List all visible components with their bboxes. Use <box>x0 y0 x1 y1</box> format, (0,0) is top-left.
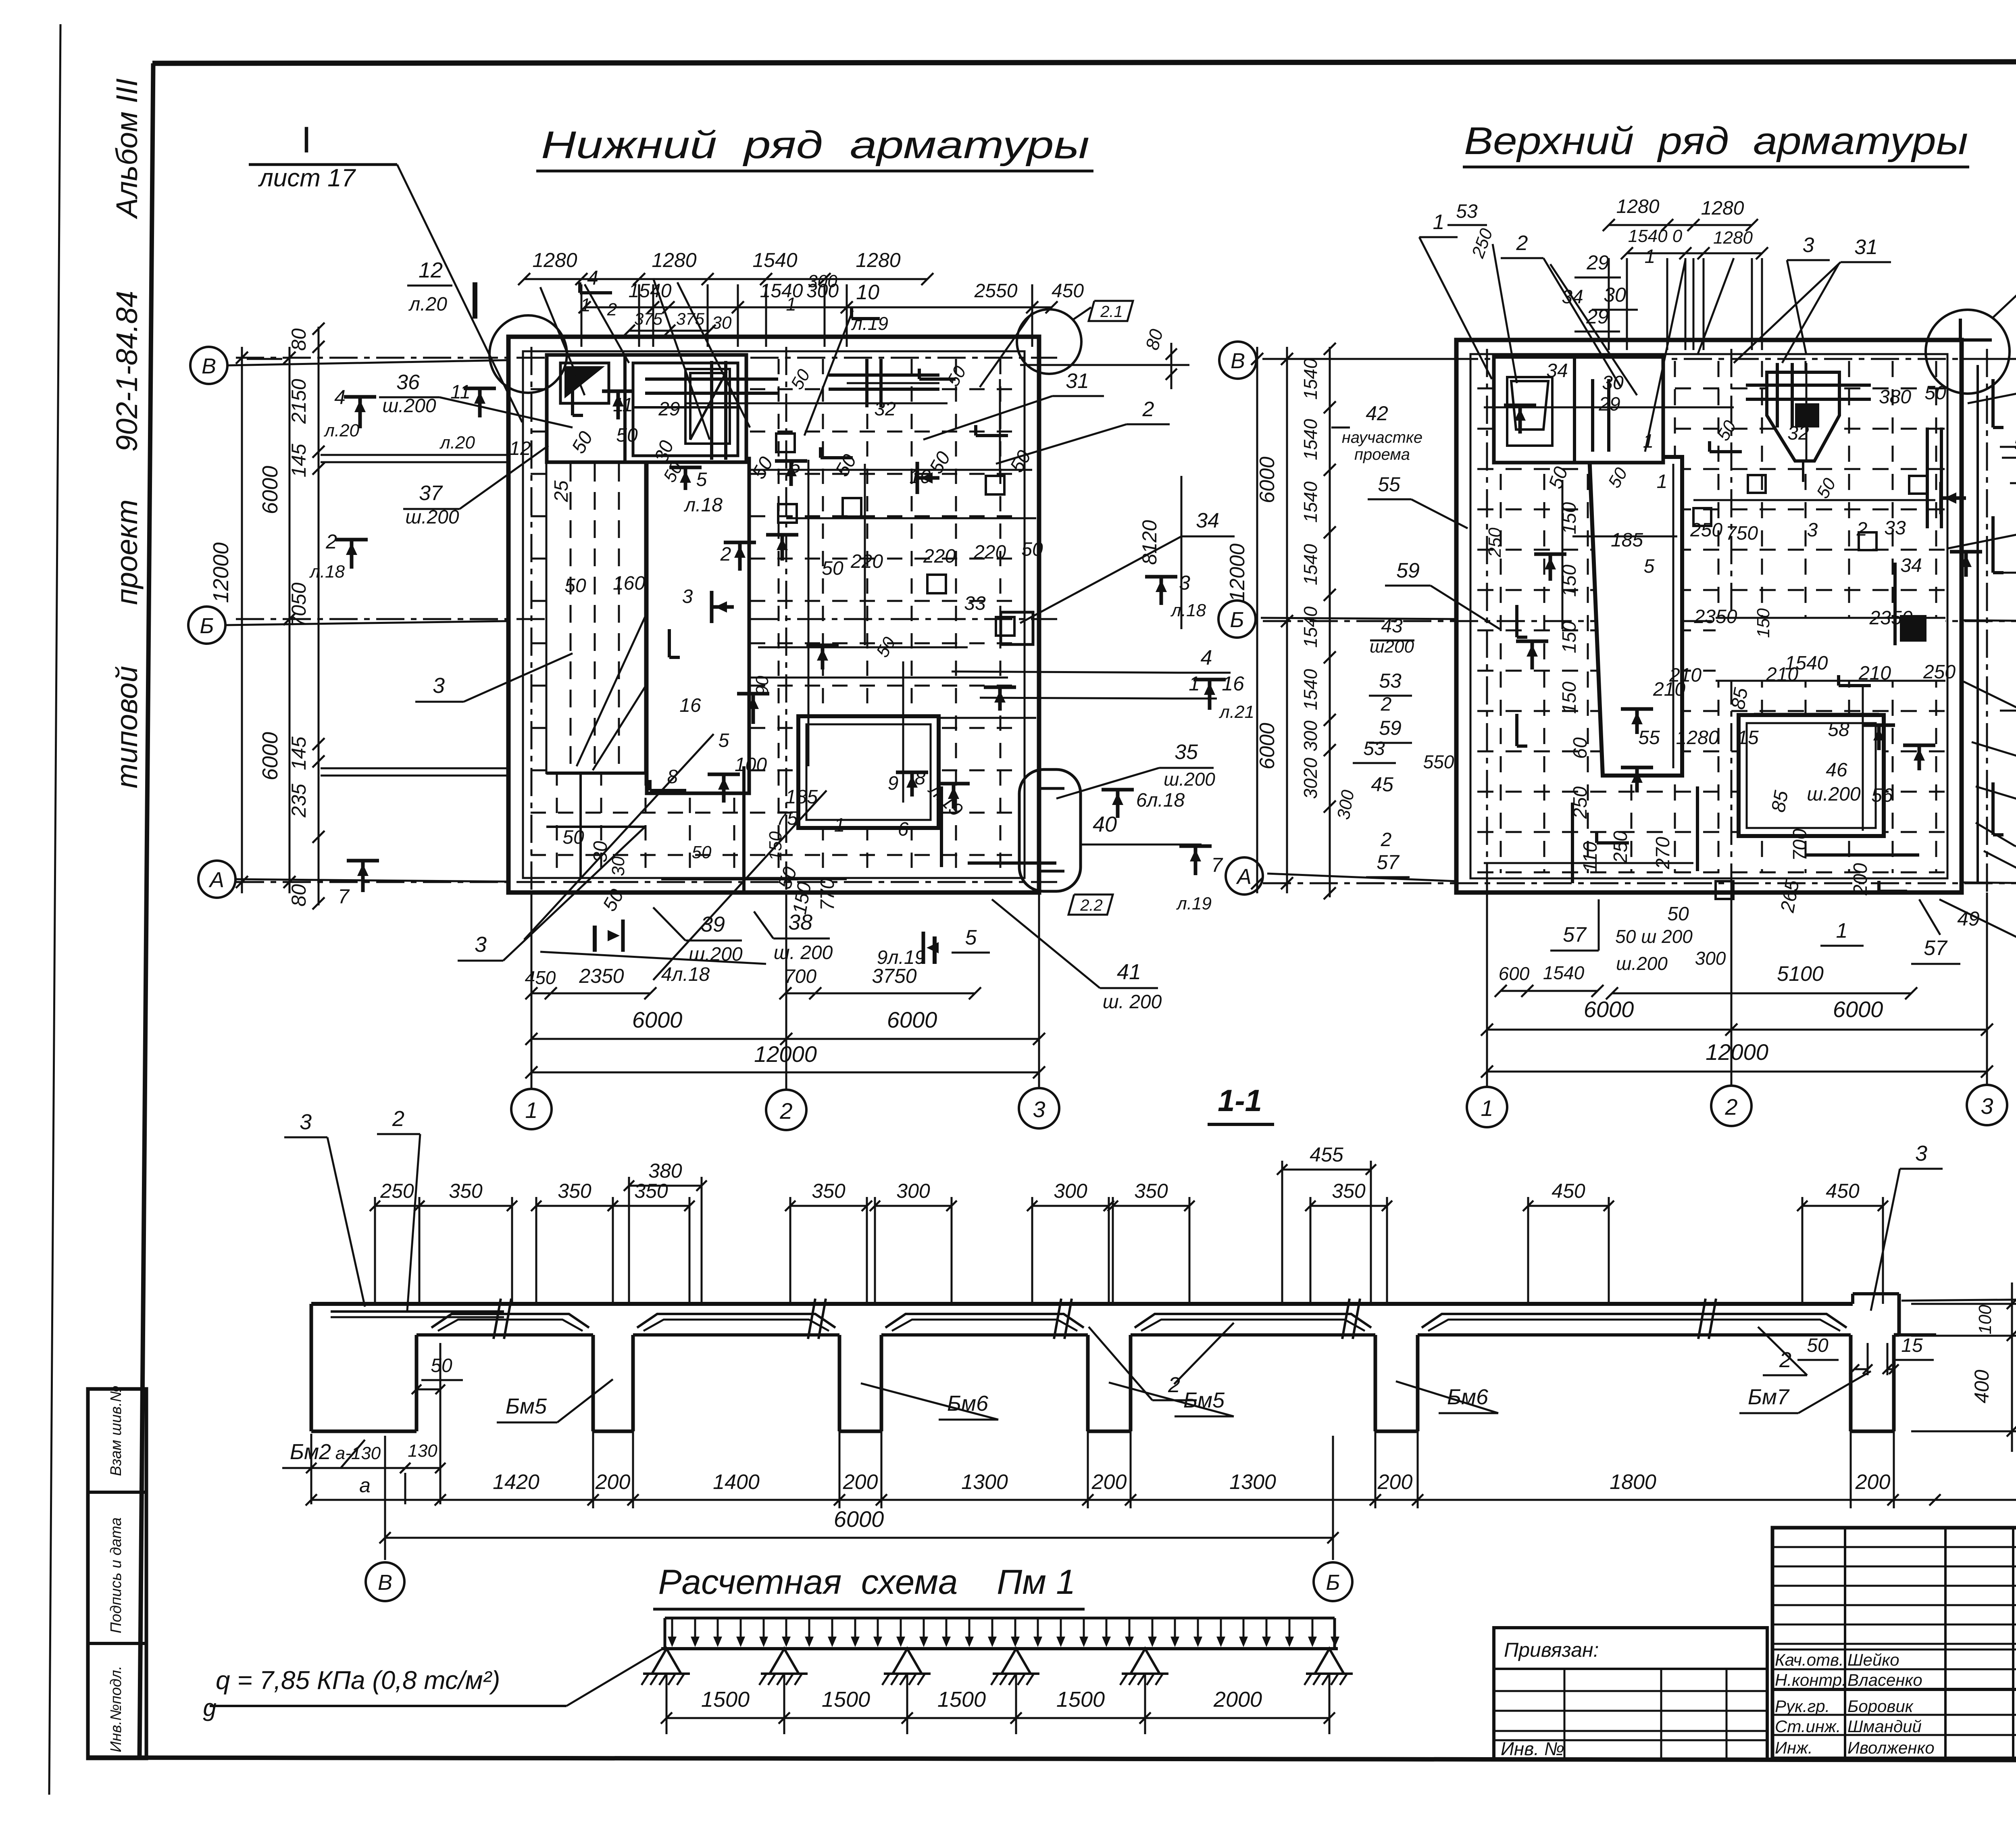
svg-text:25: 25 <box>551 480 572 503</box>
svg-text:145: 145 <box>287 736 310 770</box>
svg-text:12: 12 <box>509 438 531 459</box>
left plan top-left corner detail circle <box>489 315 567 393</box>
svg-text:4: 4 <box>334 386 346 409</box>
svg-text:16: 16 <box>1222 672 1244 695</box>
svg-text:50: 50 <box>1713 417 1740 444</box>
svg-text:ш.200: ш.200 <box>1807 784 1861 805</box>
svg-text:350: 350 <box>812 1180 846 1202</box>
svg-text:1: 1 <box>1189 672 1200 695</box>
svg-text:40: 40 <box>1093 812 1117 836</box>
personnel table name rows <box>1772 1649 2016 1735</box>
svg-text:450: 450 <box>525 967 556 988</box>
svg-text:проект: проект <box>110 499 144 605</box>
svg-text:Расчетная схема Пм 1: Расчетная схема Пм 1 <box>658 1563 1076 1601</box>
svg-text:1300: 1300 <box>1229 1470 1276 1494</box>
svg-text:200: 200 <box>595 1470 631 1494</box>
svg-text:50: 50 <box>822 558 843 579</box>
leader from callout II to plan corner <box>1992 217 2016 319</box>
svg-text:1800: 1800 <box>1610 1470 1656 1494</box>
svg-text:проема: проема <box>1354 446 1410 463</box>
svg-text:1420: 1420 <box>493 1470 539 1494</box>
svg-text:16: 16 <box>679 695 701 716</box>
right plan long rebar run lines <box>1484 407 1734 409</box>
svg-text:250: 250 <box>1610 831 1631 863</box>
left plan leader diagonals from top dims <box>653 278 710 440</box>
left stamp column boxes <box>88 1389 146 1758</box>
svg-text:1300: 1300 <box>961 1470 1008 1494</box>
svg-text:10: 10 <box>856 281 879 304</box>
svg-text:1280: 1280 <box>1701 198 1744 219</box>
svg-text:56: 56 <box>1871 785 1893 806</box>
svg-text:50: 50 <box>831 451 861 480</box>
svg-text:300: 300 <box>1695 948 1726 969</box>
callout flag 2.1 <box>1089 301 1133 321</box>
right plan outer vertical rebar run <box>1976 365 1979 883</box>
right plan axis dash-dot lines <box>1263 349 2016 1085</box>
svg-text:85: 85 <box>1727 686 1752 711</box>
svg-text:2000: 2000 <box>1213 1687 1262 1712</box>
svg-text:3: 3 <box>1033 1097 1045 1122</box>
svg-text:2350: 2350 <box>1694 606 1737 628</box>
left label 2 l.18 inner <box>781 535 784 561</box>
svg-text:1540: 1540 <box>1300 419 1321 460</box>
svg-text:235: 235 <box>287 784 310 818</box>
right plan top dims <box>1609 224 1752 226</box>
svg-text:ш.200: ш.200 <box>689 944 743 965</box>
svg-text:55: 55 <box>1378 473 1400 496</box>
right plan left dim chain 12000 <box>1256 347 1258 893</box>
svg-text:210: 210 <box>1653 679 1685 700</box>
witness lines to column bubbles <box>531 892 1039 1090</box>
svg-text:31: 31 <box>1854 236 1878 259</box>
svg-text:750: 750 <box>1726 523 1758 544</box>
privyazan aux table <box>1494 1628 1767 1759</box>
svg-text:6000: 6000 <box>632 1007 683 1032</box>
left plan axis dash-dot lines <box>236 347 1057 1089</box>
svg-text:ш.200: ш.200 <box>1164 769 1215 790</box>
svg-text:1: 1 <box>525 1097 537 1123</box>
svg-text:2350: 2350 <box>579 965 624 987</box>
svg-text:2: 2 <box>1168 1373 1180 1397</box>
svg-text:Бм6: Бм6 <box>1447 1385 1489 1409</box>
svg-text:400: 400 <box>1970 1370 1993 1403</box>
svg-text:6000: 6000 <box>1256 723 1279 769</box>
svg-text:350: 350 <box>449 1180 483 1202</box>
left rebar section mark 7 <box>361 861 365 892</box>
left plan extra rebar marks <box>821 645 825 669</box>
svg-text:ш.200: ш.200 <box>1616 953 1668 974</box>
svg-text:50: 50 <box>1667 903 1689 925</box>
svg-text:g: g <box>203 1694 216 1721</box>
svg-text:А: А <box>208 868 224 892</box>
leader lines from 39/38 into plan <box>653 907 685 940</box>
svg-text:29: 29 <box>658 398 680 420</box>
svg-text:л.20: л.20 <box>408 294 447 315</box>
svg-text:Инв. №: Инв. № <box>1501 1738 1564 1759</box>
svg-text:300: 300 <box>1300 720 1321 751</box>
section 6000 dim <box>385 1537 1333 1539</box>
svg-text:5: 5 <box>1644 556 1655 577</box>
svg-text:2: 2 <box>607 300 617 319</box>
svg-text:1280: 1280 <box>1616 196 1660 217</box>
svg-text:6л.18: 6л.18 <box>1136 790 1185 811</box>
svg-text:220: 220 <box>850 551 883 572</box>
svg-text:380: 380 <box>1879 386 1911 408</box>
svg-text:50: 50 <box>748 453 777 483</box>
svg-text:50: 50 <box>873 634 900 661</box>
svg-text:50: 50 <box>1807 1335 1829 1356</box>
svg-text:л.18: л.18 <box>1170 601 1206 620</box>
svg-text:59: 59 <box>1396 559 1420 582</box>
svg-text:6000: 6000 <box>887 1007 937 1032</box>
svg-text:50: 50 <box>1813 475 1840 502</box>
svg-text:6000: 6000 <box>834 1506 884 1532</box>
svg-text:2.1: 2.1 <box>1100 303 1123 321</box>
svg-text:80: 80 <box>287 328 310 351</box>
right plan corner step detail <box>1960 319 1992 340</box>
right plan long vertical bars <box>1806 363 1808 460</box>
section axis bubbles V and B <box>366 1562 404 1601</box>
svg-text:2: 2 <box>1724 1094 1737 1120</box>
calc scheme dim line 1500x4 2000 <box>666 1717 1329 1719</box>
svg-text:л.20: л.20 <box>323 421 360 440</box>
svg-text:Боровик: Боровик <box>1847 1697 1914 1716</box>
svg-text:типовой: типовой <box>110 666 144 788</box>
left plan top dim row 1280 1280 1540 1280 <box>524 278 927 280</box>
svg-text:л.18: л.18 <box>309 562 345 582</box>
left plan central slab band (solid outline) <box>647 459 749 793</box>
svg-text:5: 5 <box>696 469 707 490</box>
svg-text:700: 700 <box>784 966 816 987</box>
svg-text:350: 350 <box>1332 1180 1366 1202</box>
svg-text:ш.200: ш.200 <box>382 395 436 417</box>
svg-text:130: 130 <box>408 1441 437 1461</box>
svg-text:а-130: а-130 <box>335 1443 381 1463</box>
right plan tall opening (solid outline) <box>1589 457 1682 776</box>
section slab underside and ribs <box>417 1333 593 1337</box>
drawing frame left border <box>140 63 153 1758</box>
svg-text:1: 1 <box>1433 211 1445 234</box>
right plan inner wall line <box>1470 354 1947 878</box>
svg-text:Бм7: Бм7 <box>1748 1385 1790 1409</box>
svg-text:Подпись и дата: Подпись и дата <box>108 1518 125 1633</box>
left plan rebar T marks <box>616 391 620 419</box>
svg-text:Б: Б <box>1230 608 1244 632</box>
svg-text:2.2: 2.2 <box>1080 897 1103 914</box>
right plan funnel opening 32 <box>1767 372 1839 461</box>
right plan rebar mesh dashed lines <box>1477 361 1945 873</box>
svg-text:3: 3 <box>1807 519 1818 541</box>
svg-text:1500: 1500 <box>1056 1687 1105 1712</box>
drawing frame bottom border <box>88 1758 2016 1761</box>
right plan heavy bars bottom <box>1696 786 1699 871</box>
svg-text:Иволженко: Иволженко <box>1847 1738 1935 1757</box>
svg-text:34: 34 <box>1546 360 1568 382</box>
svg-text:38: 38 <box>788 910 812 934</box>
svg-text:Инв.№подл.: Инв.№подл. <box>108 1666 125 1752</box>
callout flag 2.2 <box>1068 895 1113 915</box>
right plan heavy bars top <box>1746 384 1871 387</box>
right plan top-left room block <box>1494 357 1663 463</box>
svg-text:Б: Б <box>200 614 214 638</box>
svg-text:7: 7 <box>338 885 350 908</box>
svg-text:210: 210 <box>1858 663 1891 684</box>
svg-text:3: 3 <box>475 932 487 957</box>
svg-text:I: I <box>301 119 312 161</box>
section top reinforcement bars (2) zigzag <box>431 1314 589 1328</box>
svg-text:12000: 12000 <box>1226 544 1249 602</box>
svg-text:л.21: л.21 <box>1218 702 1254 722</box>
left plan outer wall boundary <box>508 337 1039 892</box>
svg-text:30: 30 <box>1604 284 1626 306</box>
svg-text:Б: Б <box>1326 1570 1340 1595</box>
right plan left dim chain 1540 x4 etc <box>1329 347 1331 897</box>
leader circle to flag 2.1 <box>1073 307 1091 319</box>
left plan long rebar run lines <box>685 402 948 405</box>
right plan small rebar squares <box>1748 475 1766 493</box>
left dim witness lines <box>242 357 508 358</box>
left plan rebar hooks <box>650 789 686 792</box>
left plan bottom dim row 6000 6000 <box>531 1038 1039 1040</box>
svg-text:160: 160 <box>613 573 645 594</box>
title block outer box <box>1772 1528 2016 1758</box>
svg-text:15: 15 <box>1901 1335 1923 1356</box>
svg-text:1500: 1500 <box>701 1687 750 1712</box>
svg-text:57: 57 <box>1377 851 1400 874</box>
svg-text:36: 36 <box>396 371 420 394</box>
left plan opening diagonal leaders <box>577 476 710 766</box>
svg-text:1280: 1280 <box>652 249 696 271</box>
svg-text:2: 2 <box>1381 694 1392 715</box>
svg-text:1: 1 <box>1481 1095 1493 1121</box>
drawing frame top border <box>152 61 2016 63</box>
svg-text:59: 59 <box>1379 717 1402 739</box>
svg-text:200: 200 <box>843 1470 878 1494</box>
section slab top line <box>311 1302 1853 1306</box>
svg-text:15: 15 <box>1737 727 1759 749</box>
svg-text:1: 1 <box>1836 919 1848 943</box>
svg-text:Верхний ряд арматуры: Верхний ряд арматуры <box>1464 119 1968 163</box>
svg-text:Нижний ряд арматуры: Нижний ряд арматуры <box>541 123 1089 167</box>
svg-text:1-1: 1-1 <box>1218 1084 1262 1118</box>
svg-text:250: 250 <box>380 1180 414 1202</box>
svg-text:л.19: л.19 <box>1176 894 1212 913</box>
svg-text:35: 35 <box>1175 740 1198 764</box>
svg-text:32: 32 <box>874 398 896 420</box>
right plan bottom-right room <box>1739 715 1884 836</box>
svg-text:450: 450 <box>1826 1180 1860 1202</box>
left rebar section mark 4 l.20 <box>358 397 362 428</box>
left plan small rebar squares <box>776 434 795 452</box>
left plan bottom-right rounded detail outline <box>1019 769 1081 891</box>
svg-text:250: 250 <box>1485 528 1505 558</box>
left plan top small dims 375 375 and tags <box>629 330 710 332</box>
svg-text:1500: 1500 <box>822 1687 870 1712</box>
svg-text:1540: 1540 <box>1300 358 1321 400</box>
svg-text:50: 50 <box>692 842 712 862</box>
svg-text:50: 50 <box>564 575 586 596</box>
svg-text:2: 2 <box>1142 398 1154 421</box>
svg-text:5100: 5100 <box>1777 962 1824 986</box>
right plan heavy bars right <box>1926 427 1929 528</box>
svg-text:50 ш 200: 50 ш 200 <box>1615 926 1693 947</box>
svg-text:30: 30 <box>608 856 628 876</box>
svg-text:1: 1 <box>834 815 845 836</box>
left plan bottom dim row 12000 <box>531 1072 1039 1074</box>
svg-text:300: 300 <box>808 271 837 291</box>
svg-text:1280: 1280 <box>532 249 577 271</box>
svg-text:450: 450 <box>1052 280 1084 302</box>
svg-text:350: 350 <box>1134 1180 1168 1202</box>
svg-text:185: 185 <box>785 786 818 808</box>
section right end edge <box>1897 1294 1901 1335</box>
personnel table rows upper empty <box>1772 1547 2016 1644</box>
svg-text:9: 9 <box>888 773 899 794</box>
svg-text:1280: 1280 <box>1676 727 1719 749</box>
svg-text:3750: 3750 <box>872 965 916 987</box>
svg-text:43: 43 <box>1381 615 1403 637</box>
svg-text:770: 770 <box>817 878 838 911</box>
svg-text:3: 3 <box>1803 234 1814 257</box>
right plan leader diagonals <box>1645 260 1685 452</box>
calc scheme supports <box>652 1649 681 1674</box>
svg-text:60: 60 <box>1570 737 1591 759</box>
svg-text:1: 1 <box>1645 246 1656 267</box>
svg-text:Шейко: Шейко <box>1847 1650 1899 1669</box>
svg-text:6000: 6000 <box>1256 457 1279 503</box>
svg-text:110: 110 <box>1580 841 1601 872</box>
svg-text:12: 12 <box>419 258 443 282</box>
right plan bottom dims <box>1501 990 1597 992</box>
svg-text:8: 8 <box>667 766 678 788</box>
left plan column bubbles 1 2 3 <box>511 1089 552 1129</box>
svg-text:11: 11 <box>613 394 633 416</box>
svg-text:53: 53 <box>1363 738 1385 759</box>
svg-text:29: 29 <box>1598 394 1620 415</box>
section left small dims a-130 130 a <box>311 1467 405 1469</box>
svg-text:350: 350 <box>634 1180 668 1202</box>
svg-text:85: 85 <box>1768 789 1793 814</box>
svg-text:Ст.инж.: Ст.инж. <box>1775 1717 1841 1736</box>
svg-text:Привязан:: Привязан: <box>1504 1639 1599 1661</box>
left plan top-left room block walls <box>547 355 746 462</box>
svg-text:300: 300 <box>896 1180 930 1202</box>
svg-text:лист 17: лист 17 <box>258 164 356 192</box>
axis extension lines to circles <box>227 360 508 365</box>
svg-text:200: 200 <box>1091 1470 1127 1494</box>
axis circle A right plan left <box>1226 857 1263 895</box>
svg-text:12000: 12000 <box>1706 1039 1768 1065</box>
svg-text:6000: 6000 <box>1584 997 1634 1022</box>
right plan top-right corner detail circle <box>1926 310 2010 394</box>
svg-text:2: 2 <box>1381 829 1392 851</box>
section top bar line along slab <box>331 1310 504 1313</box>
svg-text:380: 380 <box>648 1159 682 1182</box>
svg-text:Рук.гр.: Рук.гр. <box>1775 1697 1830 1716</box>
svg-text:ш. 200: ш. 200 <box>1103 991 1162 1013</box>
svg-text:150: 150 <box>1754 608 1773 638</box>
svg-text:185: 185 <box>1611 530 1643 551</box>
svg-text:50: 50 <box>562 827 584 848</box>
right plan left dim chain 6000 6000 <box>1286 347 1288 893</box>
left plan long vertical bars <box>808 460 810 766</box>
svg-text:150: 150 <box>1559 682 1580 714</box>
svg-text:90: 90 <box>752 676 772 695</box>
left plan heavy rebar bars top-left rooms <box>645 377 778 381</box>
svg-text:1540: 1540 <box>1300 606 1321 648</box>
left plan rebar mesh dashed lines <box>531 359 1021 873</box>
svg-text:250: 250 <box>1468 226 1497 261</box>
svg-text:2: 2 <box>1779 1348 1791 1372</box>
svg-text:50: 50 <box>431 1355 452 1376</box>
svg-text:А: А <box>1236 865 1252 889</box>
svg-text:45: 45 <box>1371 773 1393 796</box>
left plan top-left window triangles <box>564 366 605 398</box>
section right dims 100 400 <box>1911 1303 2016 1305</box>
svg-text:53: 53 <box>1379 669 1402 692</box>
svg-text:46: 46 <box>1826 759 1847 781</box>
left plan top-right corner detail circle <box>1017 309 1081 374</box>
svg-text:100: 100 <box>735 754 767 776</box>
svg-text:2150: 2150 <box>287 379 310 424</box>
svg-text:Инж.: Инж. <box>1775 1738 1813 1757</box>
left double witness lines rows 145 <box>321 454 507 456</box>
svg-text:455: 455 <box>1310 1143 1343 1166</box>
svg-text:350: 350 <box>558 1180 591 1202</box>
svg-text:а: а <box>359 1474 371 1497</box>
leader from callout I to plan corner <box>397 165 522 422</box>
svg-text:300: 300 <box>1333 788 1358 821</box>
svg-text:12000: 12000 <box>209 542 233 603</box>
svg-text:1540: 1540 <box>1300 544 1321 585</box>
svg-text:2350: 2350 <box>1869 607 1913 629</box>
paper binding edge line <box>49 24 60 1795</box>
svg-text:5: 5 <box>790 456 801 477</box>
svg-text:7: 7 <box>1211 854 1223 876</box>
svg-text:29: 29 <box>1586 251 1609 274</box>
axis circle B right plan left <box>1218 601 1256 638</box>
svg-text:600: 600 <box>1499 963 1530 984</box>
personnel table columns <box>1844 1528 1846 1758</box>
axis circle B left plan <box>188 607 225 644</box>
svg-text:1540: 1540 <box>1300 669 1321 710</box>
svg-text:1280: 1280 <box>856 249 900 271</box>
svg-text:6000: 6000 <box>258 732 282 780</box>
svg-text:145: 145 <box>287 444 310 478</box>
svg-text:Шмандий: Шмандий <box>1847 1717 1922 1736</box>
svg-text:1540: 1540 <box>629 280 672 302</box>
svg-text:2: 2 <box>325 530 337 553</box>
svg-text:4: 4 <box>1201 646 1212 669</box>
svg-text:1280: 1280 <box>1713 228 1753 248</box>
right plan rebar T and hook marks <box>1518 405 1522 434</box>
left plan diagonal leader lines lower-left <box>524 734 714 940</box>
svg-text:4: 4 <box>587 267 598 289</box>
svg-text:1: 1 <box>1657 471 1668 492</box>
svg-text:1540: 1540 <box>1300 481 1321 523</box>
svg-text:270: 270 <box>1652 837 1674 870</box>
svg-text:Н.контр.: Н.контр. <box>1775 1670 1847 1689</box>
svg-text:33: 33 <box>964 593 986 614</box>
svg-text:1540 0: 1540 0 <box>1628 226 1683 246</box>
svg-text:л.19: л.19 <box>851 313 888 334</box>
svg-text:31: 31 <box>1066 369 1089 393</box>
calc scheme load strip <box>665 1617 1335 1620</box>
svg-text:902-1-84.84: 902-1-84.84 <box>110 291 144 452</box>
section break marks <box>494 1299 501 1339</box>
svg-text:8120: 8120 <box>1138 520 1161 565</box>
top witness lines dropping to plan top edge <box>581 284 1032 347</box>
